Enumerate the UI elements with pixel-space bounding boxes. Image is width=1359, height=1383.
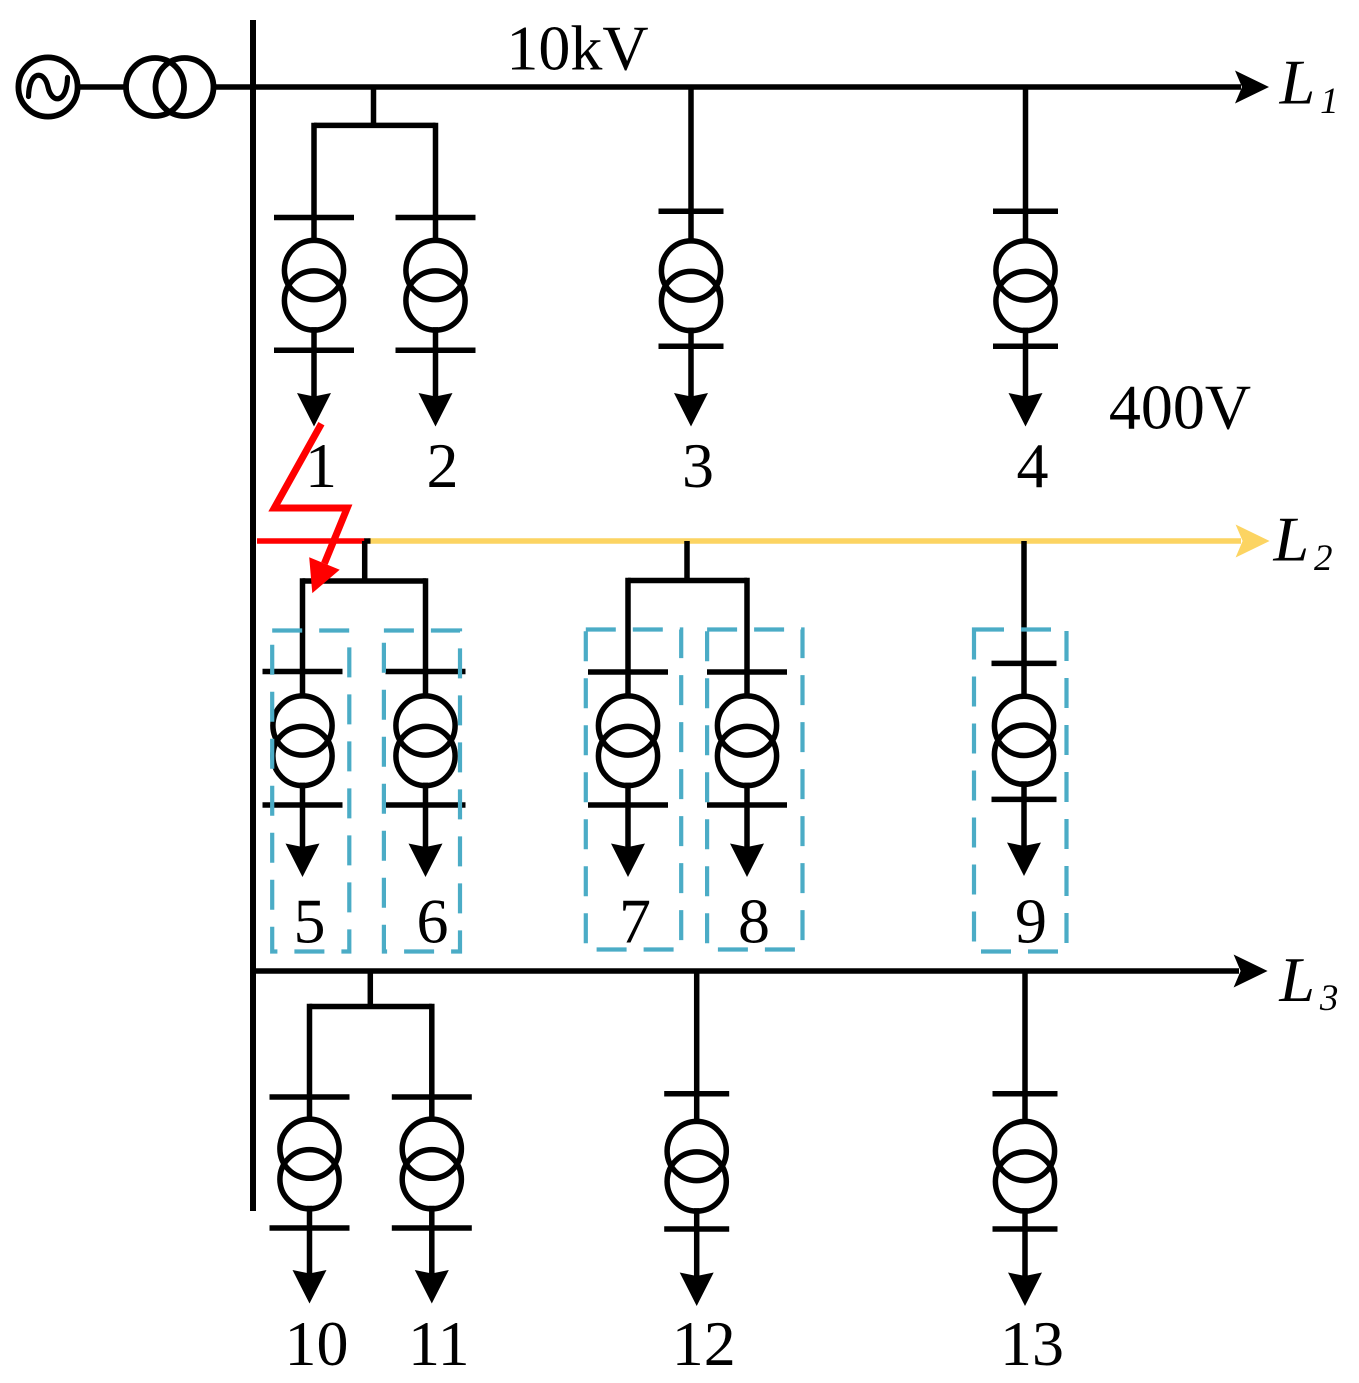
svg-text:4: 4 — [1017, 430, 1049, 501]
svg-text:3: 3 — [1319, 978, 1339, 1019]
svg-text:5: 5 — [294, 886, 326, 957]
svg-text:1: 1 — [1320, 81, 1339, 122]
svg-text:12: 12 — [672, 1308, 736, 1379]
svg-text:3: 3 — [682, 430, 714, 501]
svg-text:10: 10 — [285, 1308, 349, 1379]
svg-text:L: L — [1273, 503, 1310, 574]
svg-text:400V: 400V — [1109, 371, 1251, 442]
svg-text:2: 2 — [427, 430, 459, 501]
svg-text:10kV: 10kV — [506, 12, 648, 83]
svg-text:L: L — [1278, 944, 1315, 1015]
svg-text:6: 6 — [417, 886, 449, 957]
svg-text:8: 8 — [738, 886, 770, 957]
svg-text:9: 9 — [1015, 886, 1047, 957]
svg-text:13: 13 — [1000, 1308, 1064, 1379]
svg-text:L: L — [1279, 47, 1316, 118]
svg-text:11: 11 — [408, 1308, 470, 1379]
svg-text:2: 2 — [1314, 538, 1333, 579]
svg-text:7: 7 — [619, 886, 651, 957]
